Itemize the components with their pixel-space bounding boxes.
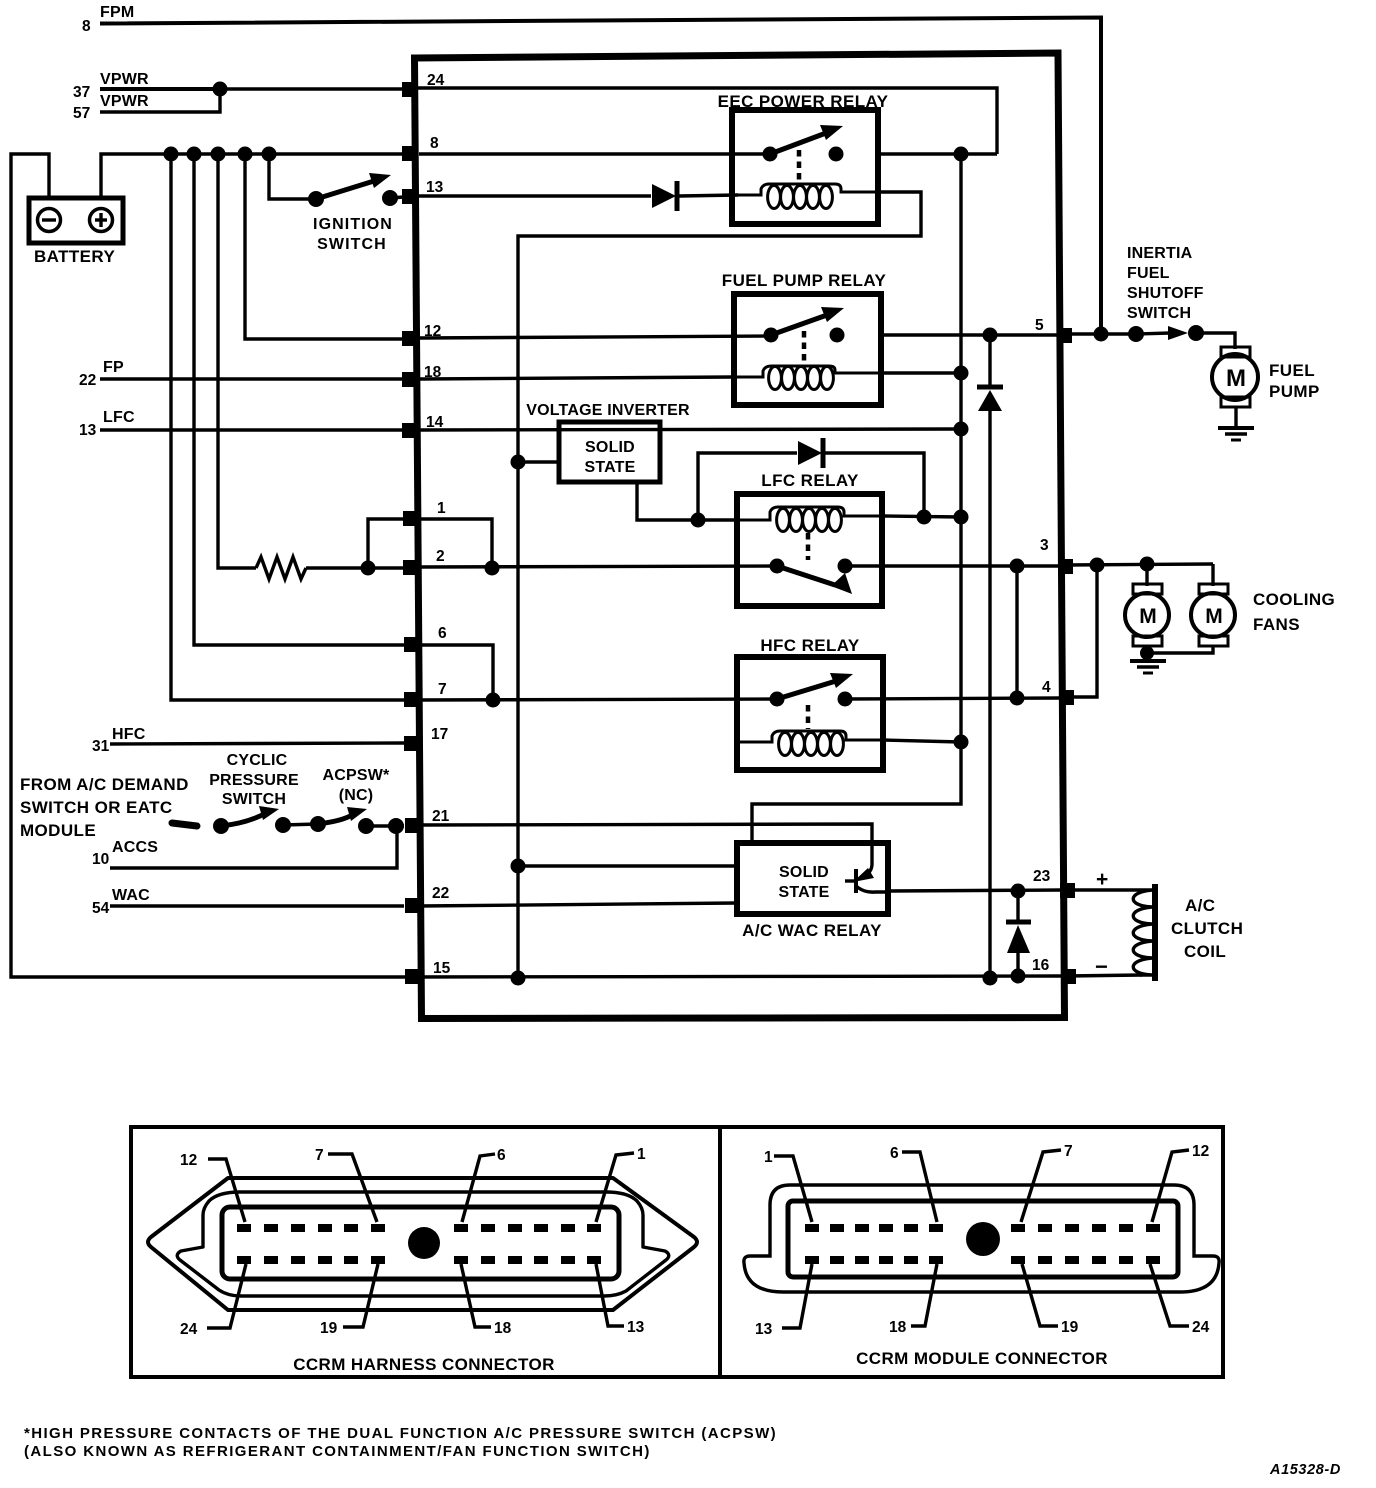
wire inertia switch to fuel pump motor: [1196, 333, 1235, 349]
junction pin 3 to pin 4 inner jumper top: [1010, 559, 1025, 574]
pin 8 terminal: [402, 146, 417, 161]
svg-text:STATE: STATE: [778, 884, 829, 901]
svg-text:7: 7: [315, 1147, 324, 1164]
wire ACCS to pin 21 junction: [110, 826, 397, 868]
junction bus C: [211, 147, 226, 162]
svg-text:24: 24: [180, 1321, 198, 1338]
A/C clutch coil L1: [1133, 884, 1155, 981]
svg-text:WAC: WAC: [112, 887, 150, 904]
svg-text:1: 1: [637, 1146, 646, 1163]
CCRM module outline: [415, 53, 1065, 1019]
svg-text:(NC): (NC): [339, 787, 374, 804]
svg-text:SOLID: SOLID: [779, 864, 829, 881]
cyclic pressure switch S2: [213, 806, 291, 834]
svg-text:1: 1: [437, 500, 446, 517]
svg-text:FP: FP: [103, 359, 124, 376]
module connector pin field: [788, 1201, 1178, 1277]
svg-text:4: 4: [1042, 679, 1051, 696]
junction fans common: [1140, 646, 1154, 660]
svg-text:FROM A/C DEMAND: FROM A/C DEMAND: [20, 775, 189, 794]
wire EEC output contact to corner: [878, 152, 997, 155]
svg-text:SWITCH: SWITCH: [222, 791, 286, 808]
wire HFC output to pin 4: [845, 698, 1061, 699]
motor M1 fuel pump: [1212, 347, 1258, 427]
svg-text:FUEL: FUEL: [1127, 265, 1170, 282]
wire pin 6 jumper to pin 7: [419, 645, 493, 700]
diode CR4 clutch clamp: [1006, 891, 1031, 976]
wire inverter output to LFC coil: [637, 482, 740, 520]
junction jumper right: [485, 561, 500, 576]
svg-text:SWITCH OR EATC: SWITCH OR EATC: [20, 798, 173, 817]
connector section frame: [131, 1127, 1223, 1377]
harness pins bottom row: [237, 1256, 601, 1264]
svg-text:24: 24: [1192, 1319, 1210, 1336]
wire bus drop to pin 7: [171, 154, 404, 700]
wire pin 23 to clutch coil plus: [1066, 888, 1140, 891]
wire pin 8 to EEC relay common contact: [419, 152, 769, 155]
svg-text:VOLTAGE INVERTER: VOLTAGE INVERTER: [526, 402, 690, 419]
svg-text:6: 6: [497, 1147, 506, 1164]
svg-text:10: 10: [92, 851, 109, 868]
svg-text:COIL: COIL: [1184, 942, 1226, 961]
svg-text:ACCS: ACCS: [112, 839, 158, 856]
wire pin 7 to HFC contact: [419, 699, 777, 700]
junction pin 3 outside: [1090, 558, 1105, 573]
junction LFC coil input: [691, 513, 706, 528]
ground fuel pump: [1218, 428, 1254, 440]
svg-text:13: 13: [755, 1321, 773, 1338]
label from A/C demand: [20, 775, 189, 840]
svg-text:19: 19: [320, 1320, 338, 1337]
svg-text:FANS: FANS: [1253, 615, 1300, 634]
battery B1: [29, 198, 123, 266]
svg-text:15: 15: [433, 960, 451, 977]
junction bus E: [262, 147, 277, 162]
wire pin 18 to fuel pump relay coil: [419, 377, 734, 379]
wire WAC input from bus: [518, 864, 737, 867]
svg-text:ACPSW*: ACPSW*: [323, 767, 391, 784]
wire stub from A/C demand: [172, 823, 197, 826]
svg-text:HFC: HFC: [112, 726, 146, 743]
relay K4 HFC relay: [737, 636, 883, 770]
svg-text:BATTERY: BATTERY: [34, 247, 115, 266]
wire pin 12 to fuel pump relay contact: [419, 336, 771, 338]
svg-text:7: 7: [438, 681, 447, 698]
pin 4 terminal: [1059, 690, 1074, 705]
junction VPWR: [213, 82, 228, 97]
svg-text:LFC: LFC: [103, 409, 135, 426]
wire outside jumper pin 4 to pin 3: [1066, 565, 1097, 697]
relay K1 EEC power relay: [718, 92, 889, 224]
pin 14 terminal: [402, 423, 417, 438]
svg-text:18: 18: [889, 1319, 907, 1336]
wire bus drop to pin 6: [194, 154, 404, 645]
solid state inverter U1: [559, 422, 660, 482]
svg-text:SWITCH: SWITCH: [1127, 305, 1191, 322]
pin 5 terminal: [1057, 328, 1072, 343]
svg-text:37: 37: [73, 84, 90, 101]
diode CR1: [652, 181, 677, 211]
svg-text:12: 12: [1192, 1143, 1209, 1160]
wire inverter input from bus: [518, 460, 559, 463]
svg-text:MODULE: MODULE: [20, 821, 96, 840]
junction inner jumper bottom: [1010, 691, 1025, 706]
svg-text:*HIGH PRESSURE CONTACTS OF THE: *HIGH PRESSURE CONTACTS OF THE DUAL FUNC…: [24, 1425, 777, 1442]
svg-text:1: 1: [764, 1149, 773, 1166]
diode CR2 clamp: [977, 335, 1003, 978]
inertia fuel shutoff switch S4: [1128, 325, 1204, 342]
svg-text:6: 6: [438, 625, 447, 642]
svg-text:13: 13: [426, 179, 444, 196]
wire pin 21 to WAC transistor: [419, 824, 872, 864]
wire pin 3 to cooling fans: [1066, 564, 1213, 565]
svg-text:INERTIA: INERTIA: [1127, 245, 1193, 262]
junction bus D: [238, 147, 253, 162]
wire bus drop to resistor: [218, 154, 256, 568]
svg-text:54: 54: [92, 900, 110, 917]
junction clutch diode bottom: [1011, 969, 1026, 984]
label A/C clutch coil: [1171, 896, 1243, 961]
svg-text:31: 31: [92, 738, 110, 755]
svg-text:SWITCH: SWITCH: [317, 236, 387, 253]
wire LFC output to pin 3: [845, 564, 1060, 567]
junction pin 14 wire: [954, 422, 969, 437]
svg-text:COOLING: COOLING: [1253, 590, 1335, 609]
svg-text:8: 8: [430, 135, 439, 152]
harness connector pin field: [222, 1207, 619, 1279]
wire to right fan: [1211, 564, 1214, 586]
label cyclic pressure switch: [209, 752, 299, 808]
svg-text:22: 22: [79, 372, 96, 389]
pin 18 terminal: [402, 372, 417, 387]
CCRM harness connector J1: [148, 1178, 697, 1310]
wire WAC to pin 22: [110, 904, 404, 907]
label inertia fuel shutoff switch: [1127, 245, 1204, 322]
svg-text:2: 2: [436, 548, 445, 565]
svg-text:5: 5: [1035, 317, 1044, 334]
wire VPWR 57 up to junction: [100, 89, 220, 112]
svg-text:M: M: [1205, 605, 1223, 628]
wire WAC output to pin 23: [888, 890, 1062, 891]
junction WAC input: [511, 859, 526, 874]
module pins top row: [805, 1224, 1160, 1232]
svg-text:A/C: A/C: [1185, 896, 1215, 915]
svg-text:21: 21: [432, 808, 450, 825]
pin 13 terminal: [402, 189, 417, 204]
svg-text:FUEL: FUEL: [1269, 361, 1315, 380]
junction FPM line: [1094, 327, 1109, 342]
junction bus B: [187, 147, 202, 162]
motor M3 right cooling fan: [1147, 584, 1235, 653]
svg-text:+: +: [1096, 868, 1108, 891]
label ACPSW (NC): [323, 767, 391, 804]
svg-text:LFC RELAY: LFC RELAY: [761, 471, 859, 490]
wire LFC coil return to supply bus: [882, 516, 961, 517]
svg-text:CCRM HARNESS CONNECTOR: CCRM HARNESS CONNECTOR: [293, 1355, 555, 1374]
svg-text:PRESSURE: PRESSURE: [209, 772, 299, 789]
pin 2 terminal: [403, 560, 418, 575]
junction ACCS tap: [388, 818, 404, 834]
svg-text:M: M: [1226, 365, 1246, 392]
wire pin 1 jumper right: [419, 519, 492, 568]
pin 16 terminal: [1061, 969, 1076, 984]
CCRM module connector J2: [744, 1185, 1219, 1292]
svg-text:(ALSO KNOWN AS REFRIGERANT CON: (ALSO KNOWN AS REFRIGERANT CONTAINMENT/F…: [24, 1443, 651, 1460]
svg-text:57: 57: [73, 105, 90, 122]
motor M2 left cooling fan: [1125, 584, 1169, 654]
pin 17 terminal: [404, 736, 419, 751]
svg-text:6: 6: [890, 1145, 899, 1162]
svg-text:23: 23: [1033, 868, 1051, 885]
svg-text:16: 16: [1032, 957, 1050, 974]
svg-text:VPWR: VPWR: [100, 93, 149, 110]
pin 3 terminal: [1058, 559, 1073, 574]
wire bus drop to pin 12: [245, 154, 404, 339]
ignition switch S1: [308, 173, 404, 253]
wire pin 14 to supply bus: [419, 429, 961, 430]
harness center post: [408, 1227, 440, 1259]
wire pin 2 to LFC contact: [419, 566, 777, 567]
svg-text:VPWR: VPWR: [100, 71, 149, 88]
junction clamp diode top: [983, 328, 998, 343]
pin 7 terminal: [404, 692, 419, 707]
relay K3 LFC relay: [737, 471, 882, 606]
ACPSW switch S3: [310, 807, 374, 834]
wire battery positive bus to pin 8: [101, 154, 404, 198]
module pins bottom row: [805, 1256, 1160, 1264]
svg-text:22: 22: [432, 885, 449, 902]
wire pin 16 to clutch coil minus: [1066, 975, 1142, 976]
svg-text:SOLID: SOLID: [585, 439, 635, 456]
svg-text:8: 8: [82, 18, 91, 35]
svg-text:FUEL PUMP RELAY: FUEL PUMP RELAY: [722, 271, 887, 290]
svg-text:3: 3: [1040, 537, 1049, 554]
wire FPM from pin 8 to inertia switch junction: [100, 18, 1101, 334]
svg-text:STATE: STATE: [584, 459, 635, 476]
wire pin 24 to EEC relay output corner: [417, 88, 997, 154]
junction HFC coil return: [954, 735, 969, 750]
svg-text:12: 12: [180, 1152, 197, 1169]
svg-text:PUMP: PUMP: [1269, 382, 1320, 401]
wire bus drop to ignition switch: [269, 154, 316, 199]
diode CR3 across LFC coil: [698, 438, 924, 520]
junction on pin 15 wire: [511, 971, 526, 986]
pin 15 terminal: [405, 969, 420, 984]
svg-text:SHUTOFF: SHUTOFF: [1127, 285, 1204, 302]
wire resistor to pin 2: [306, 566, 404, 569]
svg-text:CLUTCH: CLUTCH: [1171, 919, 1243, 938]
junction pin 6-7 jumper: [486, 693, 501, 708]
wire diode CR1 to EEC coil: [679, 195, 738, 196]
wire to left fan: [1145, 564, 1148, 586]
harness connector outer shell: [148, 1178, 697, 1310]
pin 6 terminal: [404, 637, 419, 652]
svg-text:13: 13: [79, 422, 97, 439]
svg-text:FPM: FPM: [100, 4, 134, 21]
svg-text:7: 7: [1064, 1143, 1073, 1160]
svg-text:19: 19: [1061, 1319, 1079, 1336]
junction inverter input: [511, 455, 526, 470]
relay K5 A/C WAC solid state relay: [737, 843, 888, 940]
pin 22 terminal: [405, 898, 420, 913]
wire pin 1 jumper left: [368, 519, 404, 568]
junction diode CR3 return: [917, 510, 932, 525]
junction jumper left: [361, 561, 376, 576]
pin 21 terminal: [405, 818, 420, 833]
wire ACPSW to pin 21: [366, 824, 404, 827]
junction LFC coil return: [954, 510, 969, 525]
svg-text:18: 18: [494, 1320, 512, 1337]
wire inner jumper pin3-pin4: [1015, 566, 1018, 698]
pin 23 terminal: [1060, 883, 1075, 898]
wire battery negative to left frame down to pin 15: [11, 154, 405, 977]
wire HFC coil return to supply bus: [883, 740, 961, 742]
svg-text:CYCLIC: CYCLIC: [227, 752, 288, 769]
wire pin 13 to diode CR1: [419, 194, 651, 197]
wire LFC to pin 14: [100, 428, 404, 431]
svg-text:17: 17: [431, 726, 448, 743]
junction bus A: [164, 147, 179, 162]
vertical supply bus from EEC output: [752, 154, 961, 846]
junction clamp diode bottom on pin 15 wire: [983, 971, 998, 986]
wire fuel pump relay output to pin 5: [881, 333, 1057, 336]
svg-text:IGNITION: IGNITION: [313, 216, 393, 233]
ground cooling fans: [1130, 661, 1166, 673]
pin 1 terminal: [403, 511, 418, 526]
junction left fan tap: [1140, 557, 1155, 572]
pin 12 terminal: [402, 331, 417, 346]
svg-text:CCRM MODULE CONNECTOR: CCRM MODULE CONNECTOR: [856, 1349, 1108, 1368]
junction EEC output: [954, 147, 969, 162]
pin 24 terminal: [402, 82, 417, 97]
wire HFC to pin 17: [110, 743, 404, 744]
svg-text:M: M: [1139, 605, 1157, 628]
wire VPWR 37 to pin 24: [100, 87, 220, 91]
wire fuel pump coil return to supply bus: [881, 371, 961, 374]
wire EEC coil return loop to inverter feed: [518, 192, 921, 978]
harness pins top row: [237, 1224, 601, 1232]
module connector outer shell: [744, 1185, 1219, 1292]
wire pin 22 into WAC relay: [419, 903, 737, 906]
resistor R1: [256, 557, 306, 579]
wire pin 15 to pin 16: [405, 976, 1063, 977]
module center post: [966, 1222, 1000, 1256]
svg-text:A/C WAC RELAY: A/C WAC RELAY: [742, 921, 882, 940]
junction clutch diode top: [1011, 884, 1026, 899]
wire pin 5 to fuel pump: [1066, 332, 1136, 335]
svg-text:13: 13: [627, 1319, 645, 1336]
svg-text:HFC RELAY: HFC RELAY: [760, 636, 860, 655]
junction fuel pump coil return: [954, 366, 969, 381]
relay K2 fuel pump relay: [722, 271, 887, 405]
svg-text:−: −: [1095, 954, 1108, 979]
wire FP to pin 18: [100, 377, 404, 380]
wire between switches: [283, 824, 318, 825]
svg-text:A15328-D: A15328-D: [1269, 1462, 1341, 1478]
